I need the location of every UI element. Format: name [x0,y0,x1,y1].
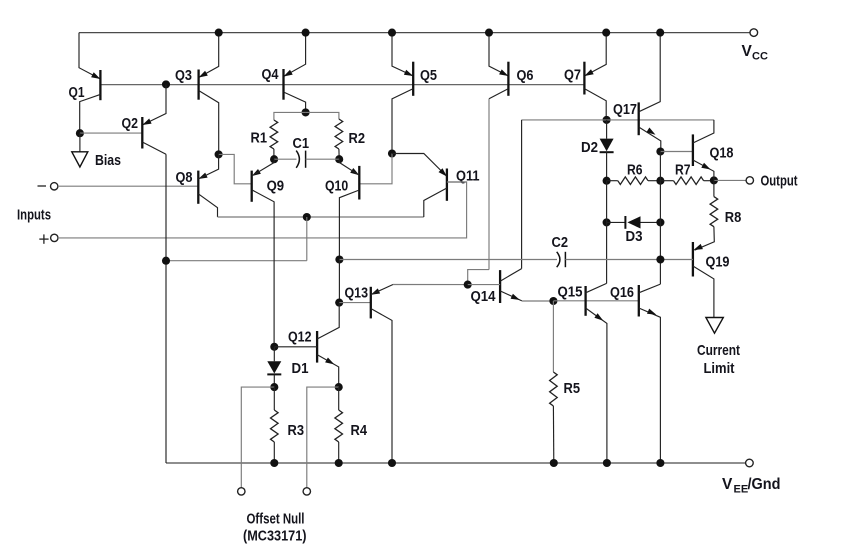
svg-text:Offset Null: Offset Null [247,512,305,528]
junction: Q4 collector / R1 / R2 [302,108,310,116]
wire: Q10 collector vertical to Q12 collector node [338,260,340,303]
resistor R4 [335,387,343,463]
junction: Q16 emitter to VEE rail [656,459,664,467]
wire: bias lead [79,133,81,152]
resistor R1 [270,120,278,159]
label: R6 [627,162,643,179]
junction: Q5 collector / Q10 base / Q11 emitter [388,149,396,157]
transistor Q18 [693,120,714,180]
transistor Q8 [198,154,218,217]
wire: feedback line from left vertical [166,260,307,262]
label: Q4 [262,66,279,83]
svg-text:Q3: Q3 [175,67,192,84]
wire: base rail Q1-Q7 [101,84,584,86]
svg-text:R1: R1 [251,130,268,147]
wire: Q17 base line / Q18 collector line [522,119,714,121]
terminal: offset null 2 [303,488,310,495]
label: Q5 [420,67,437,84]
transistor Q13 [371,285,393,464]
transistor Q7 [584,62,606,120]
wire: Q3 emitter to VCC [199,33,219,78]
label: Q15 [558,284,583,301]
junction: VCC rail at Q4 emitter [302,29,310,37]
label: C2 [552,234,569,251]
resistor R7 [660,177,714,185]
svg-text:R2: R2 [349,130,366,147]
svg-text:Q1: Q1 [69,84,85,101]
svg-text:Bias: Bias [95,152,121,169]
wire: Q19 base [660,259,693,261]
junction: Q17 emitter / Q18 base / R6-R7 net [656,147,664,155]
svg-text:C2: C2 [552,234,569,251]
svg-text:Q17: Q17 [613,101,637,118]
junction: R3 to VEE rail [270,459,278,467]
junction: VCC rail at Q6 emitter [485,29,493,37]
junction: Q7 collector / Q17 base / D2 anode [603,116,611,124]
wire: Q6 emitter to VCC [489,33,508,76]
wire: Q14 base wire [468,284,500,286]
terminal: VCC [750,29,758,37]
junction: R7 right / Q18 emitter / output node [710,176,718,184]
junction: D1 cathode / R3 / offset null 1 [270,383,278,391]
label: Q9 [267,178,285,195]
wire: x660 net vertical (Q17 emitter to Q16 collector) [659,152,661,285]
svg-text:Q9: Q9 [267,178,285,195]
svg-text:Output: Output [761,173,798,190]
label: R8 [725,209,742,226]
transistor Q19 [693,242,714,318]
terminal: non-inverting input [51,234,58,241]
svg-text:Q6: Q6 [517,67,534,84]
wire: Q13 emitter line [393,284,468,286]
label: Q10 [325,178,348,195]
wire: C1 left lead [274,158,296,160]
wire: inverting input to Q8 base [58,185,198,187]
wire: Q7 emitter to VCC [584,33,606,76]
label: Q6 [517,67,534,84]
wire: non-inverting input to Q11 base [58,182,467,238]
wire: Q11 base wire [447,181,467,183]
transistor Q16 [639,284,661,463]
wire: node to Q11 emitter [392,154,447,177]
junction: VCC rail at Q7 emitter [602,29,610,37]
junction: left vertical tap [162,257,170,265]
current limit arrow (ground symbol) [706,318,723,334]
wire: node down to Q10 base [359,154,392,184]
junction: Q13 emitter / Q14 base / Q6 collector [464,281,472,289]
wire: Q8 collector line [218,216,424,218]
label: Q17 [613,101,637,118]
wire: Q6 collector to Q14 base node [468,270,489,285]
junction: Q12 emitter / R4 / offset null 2 [335,383,343,391]
capacitor C1 [296,151,305,168]
diode D3 [607,216,661,229]
label: Inputs [17,207,51,224]
label: VCC [742,43,768,63]
wire: tap down to feedback line [306,217,308,261]
wire: VCC top rail [79,32,750,34]
svg-text:V: V [742,43,753,60]
wire: Q5 emitter to VCC [392,33,413,76]
junction: Q10 collector / C2 line [335,255,343,263]
junction: Q1 collector / Q2 base / bias [76,129,84,137]
label: Q7 [564,67,581,84]
wire: Q4 collector to R1 top [274,112,306,120]
transistor Q5 [392,62,413,154]
wire: Q15/Q16 base line [553,300,638,302]
wire: Q1 collector to Q2 base [80,132,142,134]
wire: Q4 emitter to VCC [284,33,306,77]
wire: Q1 emitter to VCC [79,33,100,79]
svg-text:R7: R7 [675,162,691,179]
label: R3 [288,422,305,439]
svg-text:Q8: Q8 [176,169,193,186]
label: Q12 [288,329,312,346]
svg-text:Inputs: Inputs [17,207,51,224]
label: D2 [581,139,598,156]
label: R2 [349,130,366,147]
diode D2 [600,120,614,181]
svg-text:C1: C1 [293,135,310,152]
junction: Q13 collector to VEE rail [388,459,396,467]
svg-text:(MC33171): (MC33171) [243,529,307,545]
svg-text:Q18: Q18 [710,145,734,162]
svg-text:CC: CC [752,51,768,63]
label: Q13 [345,285,369,302]
svg-text:Q7: Q7 [564,67,581,84]
svg-text:EE: EE [734,484,749,496]
transistor Q15 [586,283,607,463]
terminal: offset null 1 [238,488,245,495]
label: Q14 [471,288,496,305]
transistor Q10 [339,159,359,259]
wire: offset null 2 [307,387,339,488]
junction: x607 net at D3 row [603,218,611,226]
label: R7 [675,162,691,179]
label: plus sign [39,234,48,243]
junction: R6 right / R7 left on Q17 emitter net [656,177,664,185]
wire: VEE bottom rail [166,462,746,464]
terminal: Output [746,177,753,184]
junction: C2 right / Q16 collector / Q19 base [656,255,664,263]
terminal: VEE/Gnd [746,459,754,467]
wire: C2 right line [565,259,660,261]
svg-text:R5: R5 [564,380,581,397]
transistor Q6 [489,62,508,270]
label: R5 [564,380,581,397]
resistor R6 [607,177,661,185]
junction: VCC rail at Q3 emitter [215,29,223,37]
svg-text:R4: R4 [351,422,368,439]
junction: VCC rail at Q17 collector [656,29,664,37]
label: Q19 [706,254,730,271]
wire: Q14 emitter to Q15 base [522,300,554,302]
resistor R2 [335,119,343,159]
junction: Q12 base / D1 anode / Q9 collector [270,343,278,351]
wire: output [714,179,746,181]
label: Q11 [456,168,480,185]
transistor Q11 [424,168,447,217]
junction: Q3 collector / Q8 emitter / Q9 base [215,150,223,158]
bias arrow (ground symbol) [72,152,88,167]
resistor R3 [271,387,279,463]
svg-text:Current: Current [697,342,740,359]
label: Q3 [175,67,192,84]
svg-text:Limit: Limit [704,360,735,377]
wire: Q2 emitter from base rail [142,84,166,125]
transistor Q1 [80,70,101,133]
label: Bias [95,152,121,169]
svg-text:Q2: Q2 [122,115,139,132]
wire: C2 left line [339,259,557,261]
label: minus sign [38,185,47,187]
svg-text:Q5: Q5 [420,67,437,84]
junction: Q15 emitter to VEE rail [603,459,611,467]
wire: offset null 1 [241,387,274,488]
label: D1 [292,360,309,377]
junction: x660 net at D3 row [656,218,664,226]
junction: base rail to Q2 emitter [162,80,170,88]
diode D1 [267,347,281,387]
wire: C1 right lead [306,158,340,160]
resistor R8 [695,180,718,250]
svg-text:R3: R3 [288,422,305,439]
terminal: inverting input [51,183,58,190]
svg-text:Q13: Q13 [345,285,369,302]
svg-text:R8: R8 [725,209,742,226]
junction: VCC rail at Q5 emitter [388,29,396,37]
junction: R1 bottom / C1 left / Q9 emitter [270,155,278,163]
label: Q1 [69,84,85,101]
wire: node to Q9 base [219,154,252,183]
junction: R2 bottom / C1 right / Q10 emitter [335,155,343,163]
svg-text:D2: D2 [581,139,598,156]
wire: Q13 base wire [339,302,371,304]
svg-text:V: V [722,476,733,493]
wire: Q2 collector long vertical to VEE rail [165,154,167,463]
label: Output [761,173,798,190]
svg-text:Q12: Q12 [288,329,312,346]
label: R4 [351,422,368,439]
svg-text:D3: D3 [626,228,643,245]
svg-text:Q16: Q16 [610,284,634,301]
svg-text:Q4: Q4 [262,66,279,83]
wire: x607 net vertical (D2/R6 to Q15 collector) [606,181,608,284]
transistor Q9 [252,159,274,347]
svg-text:Q14: Q14 [471,288,496,305]
junction: R5 to VEE rail [550,459,558,467]
label: Q18 [710,145,734,162]
junction: Q14 emitter / Q15-Q16 base / R5 [549,297,557,305]
label: Q16 [610,284,634,301]
label: (MC33171) [243,529,307,545]
wire: Q12 base wire [274,346,317,348]
capacitor C2 [557,252,566,267]
label: C1 [293,135,310,152]
label: VEE/Gnd [722,476,781,496]
resistor R5 [550,301,558,463]
svg-text:Q10: Q10 [325,178,348,195]
label: D3 [626,228,643,245]
junction: R4 to VEE rail [335,459,343,467]
transistor Q3 [199,70,219,155]
transistor Q14 [500,269,522,303]
svg-text:/Gnd: /Gnd [748,476,781,493]
label: Current Limit [697,342,740,377]
transistor Q2 [142,117,166,154]
transistor Q4 [284,69,306,112]
svg-text:Q19: Q19 [706,254,730,271]
junction: Q8 collector line tap [303,213,311,221]
transistor Q17 [639,33,661,152]
wire: Q14 collector vertical [521,120,523,269]
wire: Q18 base wire [660,151,693,153]
svg-text:R6: R6 [627,162,643,179]
wire: Q4 collector to R2 top [306,112,339,119]
junction: D2 cathode / R6 left [603,177,611,185]
junction: Q12 collector / Q13 base node [335,299,343,307]
svg-text:Q15: Q15 [558,284,583,301]
label: Offset Null [247,512,305,528]
svg-text:D1: D1 [292,360,309,377]
label: Q2 [122,115,139,132]
label: Q8 [176,169,193,186]
transistor Q12 [317,303,339,388]
label: R1 [251,130,268,147]
